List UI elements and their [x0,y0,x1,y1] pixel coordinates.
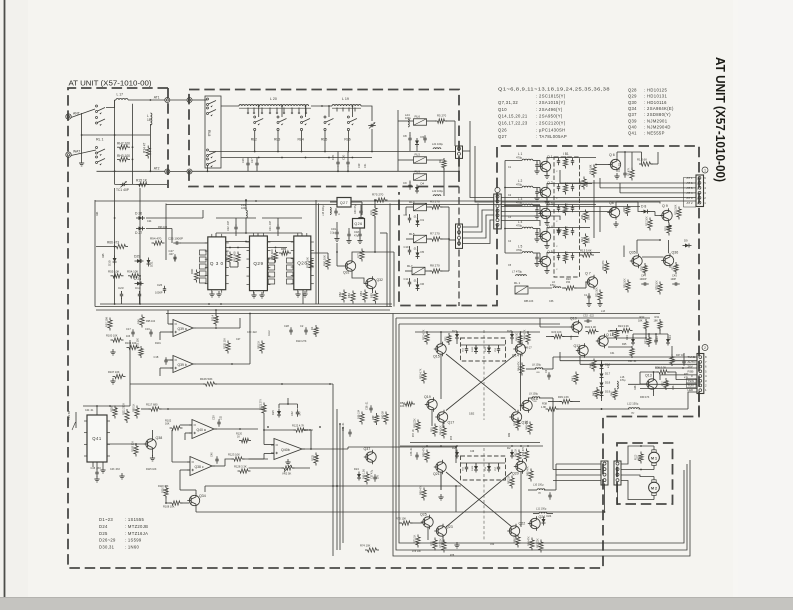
transistor Q 2 [540,187,550,197]
wire x96 junctions [114,217,116,219]
diode D14 [666,339,670,343]
motor unit dashed frame [617,443,673,504]
transistor Q12 [578,345,588,355]
svg-text:C49: C49 [470,451,475,453]
svg-text:D17: D17 [605,372,611,376]
svg-text:C27: C27 [236,338,241,341]
svg-text:C23: C23 [118,286,124,290]
svg-text:RL4: RL4 [409,200,415,204]
wire R75b row [399,522,402,524]
wire Q40b in [264,444,274,446]
svg-text:Q41: Q41 [628,131,637,136]
svg-text:R46 27: R46 27 [524,347,532,350]
wire Q15 vert [440,354,442,399]
svg-text:D 26: D 26 [135,212,142,216]
diode D6 [416,285,420,289]
svg-text:RL5: RL5 [321,138,327,142]
svg-text:R121 27K: R121 27K [260,399,263,410]
wire switch common up [106,100,115,108]
wire Q29-Q28 link1 [267,241,293,243]
relay RL9 contact box [414,174,427,181]
svg-text:C14: C14 [135,286,141,290]
wire Q6 collector row [616,152,618,157]
wire L 4 in [505,228,522,230]
capacitor C1b [423,137,426,139]
wire L 2 in [505,187,522,189]
svg-text:Q27: Q27 [340,201,348,205]
wire R117 row [141,408,151,410]
svg-text:L 17: L 17 [117,93,124,97]
svg-text:R118 47K: R118 47K [158,485,169,488]
svg-text:D106: D106 [472,465,474,471]
svg-text:Q13: Q13 [645,374,652,378]
wire Q39b out [196,363,250,365]
svg-text:R60 39: R60 39 [382,411,385,419]
diode D16 [600,365,604,369]
svg-text:R23 10K: R23 10K [552,330,562,334]
diode D8 [644,210,648,214]
svg-text:4.7K: 4.7K [316,456,319,461]
wire L17 to AT1 [115,99,116,101]
long bus wire y203 [166,204,540,206]
svg-text:R31: R31 [655,315,660,319]
svg-text:D 27: D 27 [135,231,142,235]
bottom grey band [0,598,793,610]
svg-text:Q 4: Q 4 [547,225,553,229]
svg-text:VR2 5K: VR2 5K [282,472,291,476]
trimmer TC1 40P [122,183,124,186]
svg-text:Q29: Q29 [628,94,637,99]
svg-text:R84: R84 [347,293,351,298]
svg-text:R86 10K: R86 10K [524,300,534,303]
wire x387 drop [386,233,388,307]
wire q39a feedback [215,310,217,316]
svg-text:Q12: Q12 [574,344,581,348]
svg-text:Q20: Q20 [512,472,519,476]
svg-text:L22 100µ: L22 100µ [432,189,443,193]
relay contact set lower2 [96,156,98,158]
wire Q 2 base [537,187,540,189]
svg-text:47µ: 47µ [354,235,359,238]
svg-text:AT 1: AT 1 [687,176,693,180]
wire Q6 base [596,164,610,166]
svg-text:C19: C19 [331,227,336,231]
svg-text:M 1: M 1 [651,456,657,460]
svg-text:470µ: 470µ [516,155,523,159]
svg-text:Q39: Q39 [628,118,637,123]
svg-text:1B2: 1B2 [469,412,475,416]
svg-text:: 2SA984K(E): : 2SA984K(E) [644,106,674,111]
transistor Q 4 [540,231,550,241]
svg-text:Q 6: Q 6 [609,153,615,157]
svg-text:102: 102 [220,415,223,420]
svg-text:RL3: RL3 [274,138,280,142]
svg-text:C43 .033: C43 .033 [110,468,120,471]
svg-text:: 1N60: : 1N60 [125,545,140,550]
wire D26 out [146,217,203,219]
svg-text:47K: 47K [608,364,610,368]
svg-text:.047: .047 [169,252,175,256]
transistor Q23 [436,526,446,536]
wire stage inputs from left [504,161,506,254]
svg-text:TC1 40P: TC1 40P [116,188,130,192]
svg-text:AT UNIT (X57-1010-00): AT UNIT (X57-1010-00) [69,81,152,88]
svg-text:R81: R81 [359,291,363,296]
relay contact set upper [96,105,98,107]
svg-text:C13 .01: C13 .01 [618,163,621,172]
svg-text:R40: R40 [611,391,614,396]
svg-text:R24 3.3K: R24 3.3K [618,324,629,328]
svg-text:.022: .022 [589,315,594,318]
connector CN4 [456,224,463,248]
wire Q40a out [214,428,258,430]
svg-text:3.3µ: 3.3µ [330,232,335,235]
svg-text:2: 2 [704,346,706,350]
bottom IC bus [100,303,392,305]
wire Q39b inputs [165,359,173,361]
wire x394 drop [393,252,395,307]
capacitor C3 [535,209,538,211]
svg-text:L9 100µ: L9 100µ [529,393,539,396]
diode D24b [542,519,546,523]
wire caps to bus [247,158,249,161]
svg-text:D1~23: D1~23 [99,517,113,522]
ground Q6 emitter [616,173,618,176]
svg-text:: 2SA496(Y): : 2SA496(Y) [536,107,563,112]
svg-text:R76 10K: R76 10K [412,551,421,553]
svg-text:Q29: Q29 [253,261,263,266]
svg-text:R1 5.6K: R1 5.6K [637,158,647,162]
wire Q41 bottom leads [92,462,94,467]
svg-text:4.7K: 4.7K [676,265,679,270]
svg-text:Q41: Q41 [92,436,102,441]
wire y415 long [348,446,456,448]
svg-text:M 2: M 2 [651,486,657,490]
svg-text:R25: R25 [622,343,627,346]
svg-text:: 1S1555: : 1S1555 [125,517,145,522]
L20 taps [247,108,249,113]
svg-text:D 8: D 8 [641,205,646,209]
wire L 5 in [505,252,522,254]
wire fan 2 [501,202,660,204]
terminal ANT [66,114,71,119]
wire y328 right link [239,318,241,328]
svg-text:D13: D13 [625,335,629,340]
transistor Q32 [366,278,376,288]
transistor Q10 [572,322,582,332]
svg-text:R82: R82 [338,292,342,297]
circled 1 connector id [495,187,500,192]
terminal WAT [66,152,71,157]
wire motor connections [621,446,654,464]
wire R122 row [264,429,296,431]
transistor Q24 [530,518,540,528]
svg-text:R74 10K: R74 10K [360,544,371,548]
transistor Q14 [515,344,525,354]
svg-text:RSB: RSB [688,369,694,373]
wire Q 4 base [537,228,540,230]
svg-text:47K: 47K [666,381,669,386]
svg-text:R69 47K: R69 47K [420,485,423,495]
IC Q30 [208,237,226,290]
transistor Q 5 [540,256,550,266]
svg-text:: 2SC1815(Y): : 2SC1815(Y) [536,93,566,98]
svg-text:R86 600: R86 600 [270,249,274,260]
svg-text:D24: D24 [99,524,108,529]
antenna box right dashed edge [167,88,169,188]
wire RL5 row [398,159,414,161]
timer IC Q41 [87,415,107,462]
relay RL11 [515,286,528,294]
svg-text:Q26: Q26 [498,127,507,132]
svg-text:47K: 47K [566,182,569,187]
svg-text:D14: D14 [668,335,672,340]
wire lower X top [400,445,543,447]
svg-text:1.8K: 1.8K [541,406,546,409]
wire Q 1 collector out [547,158,554,160]
svg-text:Q 3 0: Q 3 0 [210,261,224,266]
svg-text:Q24: Q24 [539,515,546,519]
wire filter box feeds [461,344,505,346]
svg-text:1: 1 [704,169,706,173]
svg-text:1000P: 1000P [640,278,647,281]
svg-text:RL5: RL5 [409,232,415,236]
transistor Q31 [345,261,355,271]
svg-text:.047: .047 [299,411,302,416]
svg-text:D30: D30 [108,260,112,266]
svg-text:D24: D24 [354,467,359,471]
svg-text:D1: D1 [421,218,425,222]
circled 2 id [702,345,708,351]
svg-text:Q8: Q8 [609,201,614,205]
wire R80 row [311,252,328,254]
svg-text:R101: R101 [155,342,161,345]
svg-text:R7 270: R7 270 [430,232,440,236]
box B right dashed extension [458,187,460,307]
circled 1 id [702,167,708,173]
svg-text:L12 150µ: L12 150µ [627,402,639,406]
svg-text:Q30: Q30 [628,100,637,105]
svg-text:: HD10131: : HD10131 [644,94,667,99]
wire y313 bus [166,313,660,315]
svg-text:RL6: RL6 [344,138,350,142]
svg-text:VR1 5K: VR1 5K [67,411,71,420]
wire drop x337 [336,409,338,550]
svg-text:AT 3: AT 3 [687,196,693,200]
transistor Q9 [662,210,672,220]
page left binding line [4,0,6,597]
wire under Q10 [546,336,554,338]
diode D9 [685,244,689,248]
svg-text:AT 2: AT 2 [687,201,693,205]
svg-text:: HD10116: : HD10116 [644,100,667,105]
svg-text:D29: D29 [134,255,140,259]
svg-text:C39: C39 [213,415,216,420]
relay RL5 contact box [414,157,427,164]
svg-text:R51: R51 [445,336,448,341]
extra wires Q10 area [608,346,632,348]
wire Q34 links [181,502,190,504]
svg-text:10K: 10K [216,316,219,321]
Q28 pin option boxes [287,258,294,263]
svg-text:R3 270: R3 270 [430,200,440,204]
wire drop x340 [339,424,341,550]
bus rect inner [399,324,684,543]
svg-text:47K: 47K [566,251,569,256]
svg-text:: 2SA950(Y): : 2SA950(Y) [536,114,563,119]
wire Q35 Q36 links [642,256,664,258]
svg-text:R38: R38 [542,402,547,406]
IC Q29 [250,236,268,291]
transistor Q13 [647,379,657,389]
svg-text:5.6K: 5.6K [585,181,589,187]
svg-text:C48 .01: C48 .01 [410,447,413,456]
svg-text:.01: .01 [413,279,417,283]
svg-text:16K: 16K [165,423,170,426]
motor M2 [649,482,660,493]
capacitor C2 [535,191,538,193]
wire RL8 to L20 [221,105,239,107]
svg-text:R39 47K: R39 47K [640,396,650,399]
svg-text:AT2: AT2 [154,167,160,171]
svg-text:C30 .022: C30 .022 [247,331,257,334]
svg-text:R90: R90 [190,268,194,274]
wire fan 6 [501,221,540,227]
svg-text:R113: R113 [636,454,638,460]
ground Q 2 emitter [546,199,548,202]
svg-text:R54 10K: R54 10K [127,270,138,274]
transistor Q38 [146,439,156,449]
svg-text:1K: 1K [237,436,240,439]
svg-text:R60 47K: R60 47K [527,466,530,476]
regulator Q27 [337,198,351,208]
svg-text:C38 .01: C38 .01 [366,401,369,410]
svg-text:L 19: L 19 [342,97,349,101]
svg-text:Q32: Q32 [377,278,384,282]
svg-text:R112: R112 [268,330,271,336]
svg-text:R75 10K: R75 10K [396,517,406,521]
svg-text:C45: C45 [672,274,677,278]
svg-text:R58 47K: R58 47K [522,446,525,456]
svg-text:470µ: 470µ [516,182,523,186]
svg-text:C9: C9 [403,181,407,185]
wire Q38c out [212,465,225,467]
svg-text:: MTZ16JA: : MTZ16JA [125,531,148,536]
bus top y324 [399,323,560,325]
relay RL5b [414,235,427,243]
wire control rows [553,356,697,358]
svg-text:C31: C31 [610,352,615,355]
diode D13 [631,339,635,343]
svg-text:R12: R12 [580,237,584,242]
svg-text:Q22: Q22 [519,522,526,526]
connector CN motor A [601,461,608,485]
svg-text:Q 9: Q 9 [662,204,668,208]
ground below WAT junction [81,160,83,163]
svg-text:C44 .01: C44 .01 [85,409,94,412]
svg-text:47µ: 47µ [649,339,652,344]
connector CN small [456,146,463,158]
diode D5 [416,253,420,257]
svg-text:C45 .033: C45 .033 [91,467,102,470]
svg-text:Q40b: Q40b [281,448,290,452]
svg-text:L 20: L 20 [270,97,277,101]
extra res Q10 area [630,349,634,356]
wire Q 2 collector out [547,184,554,186]
svg-text:R87 600: R87 600 [233,251,237,262]
ground Q8 emitter [615,221,617,224]
diode D18 [600,383,604,387]
svg-text:Q34: Q34 [628,106,637,111]
svg-text:AT UNIT (X57-1010-00): AT UNIT (X57-1010-00) [713,57,728,182]
Q30 pin option boxes [200,250,207,255]
wire WAT to switch [71,150,96,156]
svg-text:R49: R49 [509,432,511,437]
svg-text:R66 473: R66 473 [107,241,119,245]
svg-text:RL4: RL4 [298,138,304,142]
vertical wire x166 [165,204,167,261]
bus wire AT2 through box B [192,170,459,172]
filter caps upper box [465,348,468,350]
wire Q 1 base [537,160,540,162]
capacitor C1 [535,164,538,166]
svg-text:RL5: RL5 [415,153,421,157]
vertical wire x132 [132,104,134,185]
relay RL8 box [205,96,221,168]
svg-text:I B1: I B1 [563,152,569,156]
Q29 pin option boxes [268,258,275,263]
svg-text:D2: D2 [507,446,511,450]
svg-text:R8 270: R8 270 [430,264,440,268]
svg-text:Q35: Q35 [629,251,636,255]
svg-text:Q 5: Q 5 [547,250,553,254]
wire RL4 row [406,206,414,208]
svg-text:R68 47K: R68 47K [423,447,426,457]
shield box bottom [95,306,392,308]
svg-text:R64: R64 [96,211,99,216]
svg-text:C40: C40 [211,452,214,457]
svg-text:: µPC1430SH: : µPC1430SH [536,127,566,132]
ground Q9 emitter [668,224,670,227]
svg-text:.01: .01 [413,215,417,219]
svg-text:L8 100µ: L8 100µ [532,364,542,367]
svg-text:Q 1: Q 1 [547,155,553,159]
bus wire relay commons [209,151,455,153]
diode D1 [416,221,420,225]
wire RL5b row [406,238,414,240]
svg-text:R92: R92 [174,256,177,261]
svg-text:ΩΩ: ΩΩ [538,493,541,495]
svg-text:: HD10125: : HD10125 [644,88,667,93]
svg-text:47K: 47K [566,156,569,161]
svg-text:470µ: 470µ [516,223,523,227]
wire RL7 row [405,270,412,272]
svg-text:C8: C8 [403,134,407,138]
svg-text:RH3 100: RH3 100 [117,154,130,158]
svg-text:Q 3: Q 3 [547,202,553,206]
wire Q7 base row [529,287,552,289]
X cross wires lower [446,472,512,527]
svg-text:R36 3.3K: R36 3.3K [655,366,666,370]
vertical wire x140 lower [139,188,141,304]
svg-text:25V: 25V [378,474,380,479]
wire Q27 leads [330,201,337,203]
wire Q29-Q28 link2 [267,247,287,249]
svg-text:R95 104: R95 104 [146,320,156,323]
wire Q 5 collector out [547,253,554,255]
wire Q41 top [96,406,98,415]
ground Q39b bias [112,378,114,381]
